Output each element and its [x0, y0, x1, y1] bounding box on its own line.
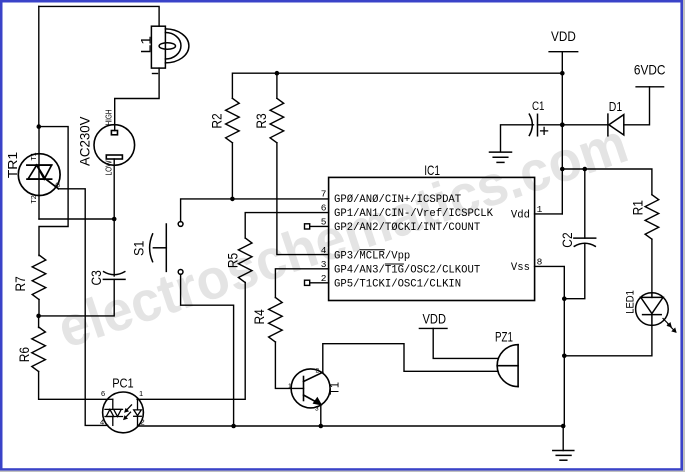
wire top rail left	[39, 6, 159, 26]
triac TR1	[18, 154, 60, 196]
svg-text:7: 7	[321, 189, 327, 200]
wire Vdd pin1	[535, 213, 563, 215]
svg-text:1: 1	[537, 204, 543, 215]
wire R3 top	[276, 73, 278, 98]
svg-text:2: 2	[141, 418, 145, 427]
svg-text:3: 3	[321, 259, 327, 270]
wire R1 to LED1	[651, 239, 653, 293]
svg-text:C3: C3	[88, 270, 104, 285]
IC1 box	[329, 177, 535, 300]
ground below C1	[490, 152, 512, 162]
wire node to D1 cathode	[562, 124, 608, 126]
wire C2 bottom to Vss node	[564, 243, 585, 298]
ground rail bottom	[138, 425, 564, 427]
node R7-R6-C3 junction	[36, 314, 41, 319]
pin 2 stub	[310, 282, 329, 284]
svg-text:PC1: PC1	[112, 377, 134, 391]
wire R4 bottom to T1 base	[275, 342, 303, 388]
node R2 bottom junction	[230, 197, 235, 202]
resistor R2	[226, 98, 240, 143]
resistor R3	[270, 98, 284, 143]
svg-text:Vdd: Vdd	[511, 210, 530, 222]
svg-text:4: 4	[321, 245, 327, 256]
wire TR1 gate down to PC1 pin4	[59, 189, 108, 426]
wire S1 bottom down to ground rail	[181, 274, 234, 426]
resistor R5	[238, 238, 252, 283]
gray strip right	[683, 0, 685, 472]
wire to ground symbol	[562, 426, 564, 451]
svg-text:R7: R7	[12, 276, 28, 291]
wire C1 right to node	[538, 124, 563, 126]
svg-text:PZ1: PZ1	[495, 329, 513, 345]
overline MCLR	[359, 249, 384, 251]
svg-text:GP3/MCLR/Vpp: GP3/MCLR/Vpp	[334, 250, 410, 262]
svg-text:GP4/AN3/T1G/OSC2/CLKOUT: GP4/AN3/T1G/OSC2/CLKOUT	[334, 265, 480, 277]
switch S1	[150, 222, 183, 275]
wire C2 top	[584, 169, 586, 238]
diode D1	[608, 114, 624, 136]
wire AC LOW down to C3	[113, 159, 115, 276]
wire R3 bottom to IC pin4	[277, 143, 329, 255]
overline T1G	[385, 263, 404, 265]
wire C3 bottom to R7/R6 node	[39, 279, 115, 316]
pin numbers	[321, 189, 543, 285]
watermark electroschematics.com	[50, 111, 635, 360]
node C1-D1 junction	[560, 122, 565, 127]
svg-text:8: 8	[537, 256, 543, 267]
svg-text:6: 6	[101, 389, 105, 398]
resistor R1	[645, 195, 659, 240]
pin 2 nc square	[305, 280, 310, 285]
node AC-C3 junction	[112, 217, 117, 222]
capacitor C2	[574, 238, 596, 246]
svg-text:IC1: IC1	[424, 162, 440, 178]
node VDD-rail junction	[560, 71, 565, 76]
svg-text:6: 6	[321, 203, 327, 214]
svg-text:LOW: LOW	[103, 161, 113, 176]
ground bottom right	[553, 451, 574, 461]
wire VDD to PZ1 top	[433, 328, 498, 358]
C1 plus sign	[541, 127, 548, 134]
wire T1 emitter to ground rail	[320, 405, 322, 427]
svg-text:1: 1	[139, 389, 143, 398]
svg-text:6VDC: 6VDC	[634, 61, 666, 77]
L1 polarity tick	[153, 73, 158, 75]
T1 pin numbers	[288, 368, 320, 413]
wire C1 left	[501, 125, 534, 152]
pin 5 nc square	[305, 224, 310, 229]
wire right rail to R1	[562, 169, 652, 195]
svg-text:R6: R6	[16, 347, 32, 362]
svg-text:D1: D1	[609, 99, 622, 114]
svg-text:R4: R4	[251, 309, 267, 324]
node junction at left rail	[37, 124, 42, 129]
svg-text:R2: R2	[209, 113, 225, 128]
svg-text:VDD: VDD	[423, 311, 447, 327]
svg-text:C2: C2	[559, 232, 575, 247]
wire left vertical	[38, 6, 40, 126]
wire S1 top to pin7 rail	[181, 199, 329, 222]
wire PC1 pin1 to R5	[137, 283, 245, 400]
svg-text:AC230V: AC230V	[76, 116, 92, 166]
svg-text:1: 1	[288, 383, 292, 390]
optocoupler PC1	[103, 392, 144, 433]
wire Vss down	[563, 299, 565, 356]
svg-text:GP1/AN1/CIN-/Vref/ICSPCLK: GP1/AN1/CIN-/Vref/ICSPCLK	[334, 208, 494, 220]
node Vss-C2 junction	[562, 296, 567, 301]
wire IC pin3 to R4	[275, 269, 328, 298]
svg-text:VDD: VDD	[551, 28, 576, 44]
wire LED1 bottom return	[564, 325, 652, 355]
svg-text:HIGH: HIGH	[103, 110, 113, 126]
wire TR1 T2 to AC/C3 node	[39, 218, 114, 220]
svg-text:G: G	[55, 182, 60, 189]
svg-text:TR1: TR1	[6, 152, 20, 179]
resistor R6	[32, 327, 46, 372]
svg-text:C1: C1	[532, 101, 545, 113]
resistor R7	[32, 255, 46, 300]
AC source AC230V	[94, 125, 135, 166]
svg-text:S1: S1	[131, 241, 147, 256]
svg-text:2: 2	[321, 273, 327, 284]
svg-text:electroschematics.com: electroschematics.com	[50, 111, 635, 360]
node T1 emitter junction	[319, 424, 324, 429]
wire T1 collector up to PZ1	[323, 344, 498, 373]
wire R6 to PC1 pin6	[39, 372, 108, 400]
svg-text:R5: R5	[224, 253, 240, 268]
svg-text:LED1: LED1	[624, 290, 636, 314]
svg-text:R3: R3	[253, 113, 269, 128]
wire R7 to node	[38, 300, 40, 316]
svg-text:3: 3	[315, 406, 319, 413]
svg-text:L1: L1	[137, 36, 153, 54]
svg-text:T2: T2	[31, 195, 38, 203]
supply VDD bar top	[549, 51, 578, 53]
TEXT_START	[6, 28, 666, 395]
node S1/R2net-ground junction	[231, 424, 236, 429]
IC pin labels inside	[334, 194, 530, 291]
svg-text:4: 4	[100, 418, 104, 427]
wire bypass around TR1 to R7	[39, 127, 68, 256]
PC1 pin numbers	[100, 389, 145, 427]
svg-text:T1: T1	[31, 152, 38, 160]
svg-text:2: 2	[316, 368, 320, 375]
wire TR1 vertical T1-T2	[38, 127, 40, 219]
svg-text:R1: R1	[629, 200, 645, 215]
resistor R4	[269, 298, 283, 343]
svg-text:GPØ/ANØ/CIN+/ICSPDAT: GPØ/ANØ/CIN+/ICSPDAT	[334, 194, 461, 206]
gray strip bottom	[0, 471, 685, 472]
wire R2 vertical	[231, 143, 233, 199]
wire R2 top to VDD rail	[232, 73, 562, 98]
wire VDD vertical main	[561, 52, 563, 214]
node LED return junction	[562, 354, 567, 359]
svg-text:GP5/T1CKI/OSC1/CLKIN: GP5/T1CKI/OSC1/CLKIN	[334, 279, 461, 291]
node ground rail end junction	[561, 424, 566, 429]
led LED1	[636, 293, 676, 332]
node R3 top junction	[275, 71, 280, 76]
capacitor C3	[103, 272, 125, 280]
supply VDD bar above PZ1	[419, 327, 447, 329]
svg-text:Vss: Vss	[511, 262, 530, 274]
pin 5 stub	[310, 225, 329, 227]
node C2 top junction	[583, 167, 588, 172]
node right rail junction	[560, 167, 565, 172]
wire R5 top to IC pin6	[245, 213, 328, 238]
wire Vss pin8	[535, 266, 565, 298]
capacitor C1	[529, 114, 537, 136]
wire node to R6	[38, 316, 40, 328]
wire L1 bottom to AC source HIGH	[115, 68, 159, 130]
wire down to ground rail	[563, 356, 565, 426]
buzzer PZ1	[497, 345, 518, 387]
svg-text:GP2/AN2/TØCKI/INT/COUNT: GP2/AN2/TØCKI/INT/COUNT	[334, 222, 480, 234]
svg-text:T1: T1	[328, 382, 342, 395]
lamp L1	[151, 26, 189, 68]
transistor T1	[291, 369, 330, 408]
wire D1 anode to 6VDC	[624, 87, 650, 125]
svg-text:5: 5	[321, 217, 327, 228]
supply 6VDC bar	[636, 86, 664, 88]
